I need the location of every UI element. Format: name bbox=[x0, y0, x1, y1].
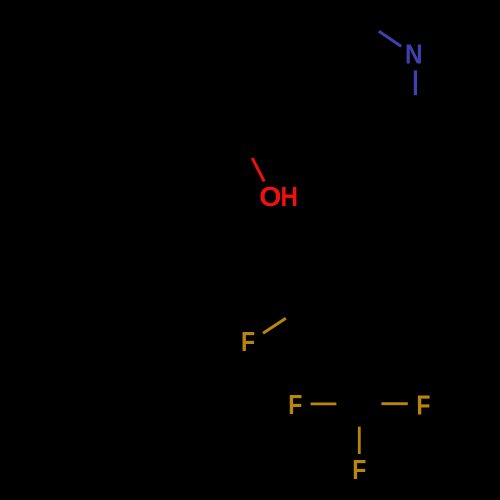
svg-text:F: F bbox=[416, 389, 430, 421]
bond N-C (blue half, vertical) bbox=[414, 70, 417, 95]
svg-text:F: F bbox=[241, 325, 255, 357]
bond C-F aromatic (gold half) bbox=[263, 318, 286, 333]
svg-text:N: N bbox=[405, 38, 423, 70]
bond CF3 to left F (gold half) bbox=[311, 402, 337, 405]
svg-text:H: H bbox=[280, 180, 298, 212]
bond CF3 to bottom F (gold half, vertical) bbox=[358, 427, 361, 454]
svg-text:O: O bbox=[259, 180, 281, 212]
bond C-N (blue half) bbox=[379, 31, 401, 46]
bond C-O (red half) bbox=[252, 158, 264, 181]
svg-text:F: F bbox=[352, 453, 366, 485]
bond CF3 to right F (gold half) bbox=[381, 402, 407, 405]
svg-text:F: F bbox=[288, 388, 302, 420]
